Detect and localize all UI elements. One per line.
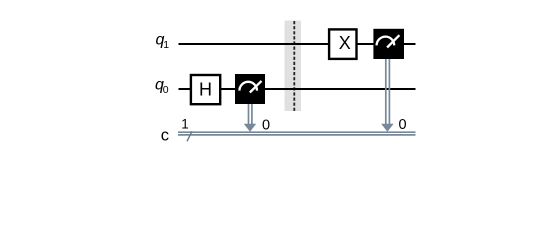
svg-text:0: 0 (262, 117, 270, 133)
svg-text:1: 1 (163, 39, 169, 51)
svg-text:1: 1 (181, 117, 189, 132)
svg-text:c: c (161, 126, 169, 144)
svg-text:H: H (199, 80, 212, 100)
svg-text:X: X (339, 33, 351, 53)
svg-text:0: 0 (163, 84, 169, 96)
svg-text:0: 0 (398, 117, 406, 133)
